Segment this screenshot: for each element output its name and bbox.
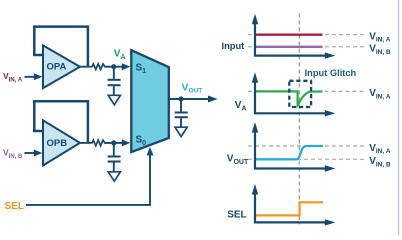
op-amp U1 feedback wire: [34, 27, 88, 67]
ground (C1): [108, 95, 120, 104]
node VOUT junction: [178, 96, 183, 101]
plot 1 trace VIN,B: [255, 46, 323, 48]
wire VIN,A input: [25, 73, 43, 80]
plot 3 dashed level VIN,B: [248, 158, 367, 160]
plot 2 y-axis: [252, 72, 258, 113]
plot 4 y-axis: [252, 184, 258, 222]
capacitor C1: [108, 69, 121, 95]
svg-text:SEL: SEL: [5, 201, 24, 212]
wire VOUT: [169, 96, 218, 103]
ground (C3): [175, 127, 187, 136]
resistor R2: [89, 140, 108, 146]
capacitor C2: [108, 145, 121, 172]
plot 4 x-axis: [254, 219, 335, 225]
switching-instant dashed line: [298, 14, 300, 225]
wire node A to mux S1: [105, 63, 131, 70]
plot 1 dashed level VIN,A: [248, 34, 367, 36]
plot 1 x-axis: [254, 52, 335, 58]
wire OPB output: [80, 142, 90, 144]
op-amp U1 (OPA): [43, 45, 80, 88]
plot 3 x-axis: [254, 165, 335, 171]
plot 1 trace VIN,A: [255, 34, 323, 36]
plot 3 dashed level VIN,A: [248, 145, 367, 147]
op-amp U2 (OPB): [43, 120, 80, 165]
wire VIN,B input: [25, 150, 43, 157]
plot 1 dashed level VIN,B: [248, 46, 367, 48]
input-glitch callout box: [289, 81, 311, 107]
svg-text:SEL: SEL: [227, 209, 246, 220]
column divider line: [398, 0, 400, 235]
capacitor C3: [175, 101, 188, 127]
plot 1 y-axis: [252, 14, 258, 56]
wire OPA output: [80, 66, 90, 68]
resistor R1: [89, 64, 108, 70]
svg-text:Input Glitch: Input Glitch: [305, 68, 357, 78]
plot 2 dashed level VIN,A: [248, 90, 254, 92]
node B junction: [111, 140, 116, 145]
plot 2 trace VA with glitch: [255, 91, 323, 105]
ground (C2): [108, 172, 120, 181]
mux U3: [131, 50, 169, 152]
plot 2 x-axis: [254, 110, 335, 116]
svg-text:OPB: OPB: [47, 138, 68, 149]
svg-text:Input: Input: [222, 41, 245, 51]
op-amp U2 feedback wire: [34, 101, 88, 143]
plot 3 y-axis: [252, 122, 258, 168]
plot 3 trace VOUT: [255, 146, 323, 159]
node A junction: [111, 64, 116, 69]
wire SEL: [26, 147, 154, 205]
wire node B to mux S0: [105, 139, 131, 146]
plot 4 trace SEL: [255, 202, 323, 215]
svg-text:OPA: OPA: [47, 62, 67, 73]
